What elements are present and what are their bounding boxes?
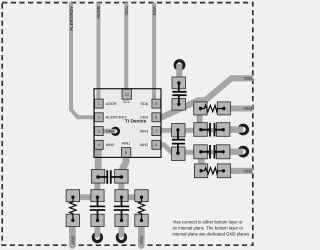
wire ALERT/RDY <box>71 3 95 118</box>
capacitor C3 (AIN2 to GND) <box>194 145 230 159</box>
svg-text:TI Device: TI Device <box>125 118 147 124</box>
wire AIN3 via stub <box>228 126 243 132</box>
capacitor C4 (AIN3-AIN2 differential) <box>172 124 186 161</box>
wire AIN3 node stub <box>196 114 202 124</box>
via C1 bypass GND <box>175 61 184 70</box>
resistor R1 (AIN3 series) <box>194 102 231 115</box>
capacitor C7 (AIN0-AIN1 differential) <box>91 170 128 184</box>
wire VDD <box>161 78 253 117</box>
via AIN0 filter GND <box>93 233 101 241</box>
IC U1 body fill <box>94 89 161 158</box>
pin 8 <box>152 113 161 122</box>
pin 4 <box>95 140 104 149</box>
svg-text:5: 5 <box>125 151 127 155</box>
via AIN3 filter GND <box>239 125 248 134</box>
svg-text:AIN1: AIN1 <box>139 235 144 245</box>
pin 2 <box>95 113 104 122</box>
svg-text:4: 4 <box>98 143 100 147</box>
wire GND pin3 to via <box>103 129 115 134</box>
wire AIN1 pin5 down <box>123 151 126 172</box>
resistor R3 (AIN0 series) <box>66 190 80 227</box>
wire AIN1 output <box>138 225 145 246</box>
wire SCL <box>124 3 128 94</box>
svg-text:Vias connect to either bottom: Vias connect to either bottom layer or <box>173 219 244 224</box>
svg-text:7: 7 <box>155 129 157 133</box>
svg-text:AIN0: AIN0 <box>70 235 75 245</box>
resistor R2 (AIN2 series) <box>194 164 230 178</box>
wire AIN3 pin7 <box>161 128 230 133</box>
wire AIN0 pin4 down <box>95 146 102 171</box>
wire R3-C5 link <box>73 194 98 200</box>
svg-text:2: 2 <box>98 116 100 120</box>
resistor R4 (AIN1 series) <box>135 190 148 227</box>
svg-text:ADDR: ADDR <box>106 102 117 106</box>
svg-text:AIN3: AIN3 <box>243 106 253 111</box>
wire AIN3 input <box>231 105 253 111</box>
svg-text:AIN1: AIN1 <box>122 142 130 146</box>
board outline (dashed) <box>2 3 253 246</box>
wire AIN2 input <box>231 168 253 174</box>
wire C5 via stub <box>95 226 101 238</box>
svg-text:VDD: VDD <box>244 76 253 81</box>
pin 9 <box>152 99 161 108</box>
capacitor C6 (AIN1 to GND) <box>114 190 129 227</box>
capacitor C1 (VDD bypass) <box>172 77 187 110</box>
wire diff cap left down <box>94 180 100 191</box>
svg-text:internal plane are dedicated G: internal plane are dedicated GND planes <box>173 232 250 237</box>
wire SDA <box>152 3 156 105</box>
svg-text:6: 6 <box>155 143 157 147</box>
capacitor C2 (AIN3 to GND) <box>194 123 230 137</box>
svg-text:GND: GND <box>106 129 115 133</box>
svg-text:AIN3: AIN3 <box>140 129 148 133</box>
svg-text:1: 1 <box>98 102 100 106</box>
pin 10 <box>122 89 131 99</box>
svg-text:9: 9 <box>155 102 157 106</box>
svg-text:SDA: SDA <box>152 6 157 15</box>
svg-text:SCL: SCL <box>124 6 129 15</box>
svg-text:SDA: SDA <box>140 102 148 106</box>
wire C6-R4 link <box>122 194 142 200</box>
wire ADDR <box>96 3 100 104</box>
svg-text:ALERT/RDY: ALERT/RDY <box>69 6 74 31</box>
svg-text:3: 3 <box>98 129 100 133</box>
svg-text:SCL: SCL <box>123 100 130 104</box>
svg-text:8: 8 <box>155 116 157 120</box>
wire AIN2 node stub <box>198 157 204 165</box>
pin 3 <box>95 127 104 136</box>
via AIN2 filter GND <box>239 147 248 156</box>
wire diff cap right down <box>118 180 124 191</box>
svg-text:AIN2: AIN2 <box>140 143 148 147</box>
svg-text:ADDR: ADDR <box>96 6 101 18</box>
pin 6 <box>152 140 161 149</box>
svg-text:an internal plane. The bottom: an internal plane. The bottom layer or <box>173 226 244 231</box>
wire AIN2 via stub <box>228 148 243 154</box>
svg-text:10: 10 <box>125 93 129 97</box>
capacitor C5 (AIN0 to GND) <box>90 190 105 227</box>
pin 5 <box>121 148 130 158</box>
wire AIN0 output <box>69 225 76 246</box>
via AIN1 filter GND <box>117 233 125 241</box>
IC U1 border <box>94 89 161 158</box>
wire C1 via stub <box>176 64 182 79</box>
pin 7 <box>152 127 161 136</box>
svg-text:AIN2: AIN2 <box>243 168 253 173</box>
wire AIN2 pin6 <box>161 145 230 153</box>
via GND (at U1 pin 3) <box>112 128 119 135</box>
svg-text:AIN0: AIN0 <box>106 143 114 147</box>
wire C6 via stub <box>119 226 125 238</box>
pin 1 <box>95 99 104 108</box>
